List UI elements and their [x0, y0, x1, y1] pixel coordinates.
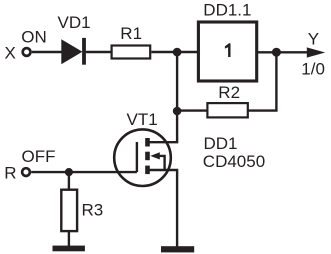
svg-text:X: X: [5, 43, 16, 62]
svg-text:1/0: 1/0: [301, 59, 325, 78]
resistor R2: [207, 103, 247, 117]
source channel bar: [145, 166, 150, 175]
svg-text:Y: Y: [308, 29, 319, 48]
node R3 junction: [65, 168, 73, 176]
substrate wire: [159, 156, 165, 170]
drain channel bar: [145, 138, 150, 147]
svg-text:VT1: VT1: [127, 110, 158, 129]
ground under VT1: [161, 246, 194, 252]
wire junction to R3: [68, 172, 70, 190]
body circle: [114, 129, 171, 186]
resistor R1: [112, 46, 151, 59]
svg-text:CD4050: CD4050: [203, 152, 265, 171]
wire node to R2: [177, 109, 207, 111]
substrate arrow: [150, 152, 160, 159]
wire R3 to ground: [68, 231, 70, 246]
svg-text:OFF: OFF: [22, 147, 56, 166]
terminal R: [22, 168, 30, 176]
terminal X: [23, 48, 31, 56]
svg-text:VD1: VD1: [58, 13, 91, 32]
gate bar: [136, 142, 138, 172]
output arrow Y: [307, 47, 325, 57]
wire feedback left vertical: [176, 52, 178, 111]
resistor R3: [61, 190, 77, 231]
svg-text:DD1: DD1: [204, 134, 238, 153]
wire R1 to DD1.1: [151, 51, 198, 53]
diode VD1: [61, 38, 86, 65]
svg-text:R3: R3: [82, 200, 104, 219]
wire DD1.1 output: [257, 51, 308, 53]
svg-text:ON: ON: [21, 28, 47, 47]
wire source to ground: [148, 170, 177, 247]
transistor Q1 VT1: [114, 129, 171, 186]
ground under R3: [53, 246, 85, 252]
svg-text:R2: R2: [218, 83, 240, 102]
wire gate: [31, 171, 137, 173]
op-amp U1 buffer DD1.1: [198, 22, 256, 81]
wire drain: [148, 111, 177, 142]
node R2 left junction: [173, 107, 182, 116]
svg-text:R: R: [4, 163, 16, 182]
wire VD1 to R1: [86, 51, 111, 53]
node input junction: [173, 48, 182, 57]
substrate channel bar: [145, 152, 150, 161]
wire X to VD1: [32, 51, 63, 53]
svg-text:DD1.1: DD1.1: [203, 0, 251, 19]
wire R2 to output vertical: [248, 52, 277, 111]
svg-text:R1: R1: [120, 24, 142, 43]
node output junction: [272, 48, 281, 57]
